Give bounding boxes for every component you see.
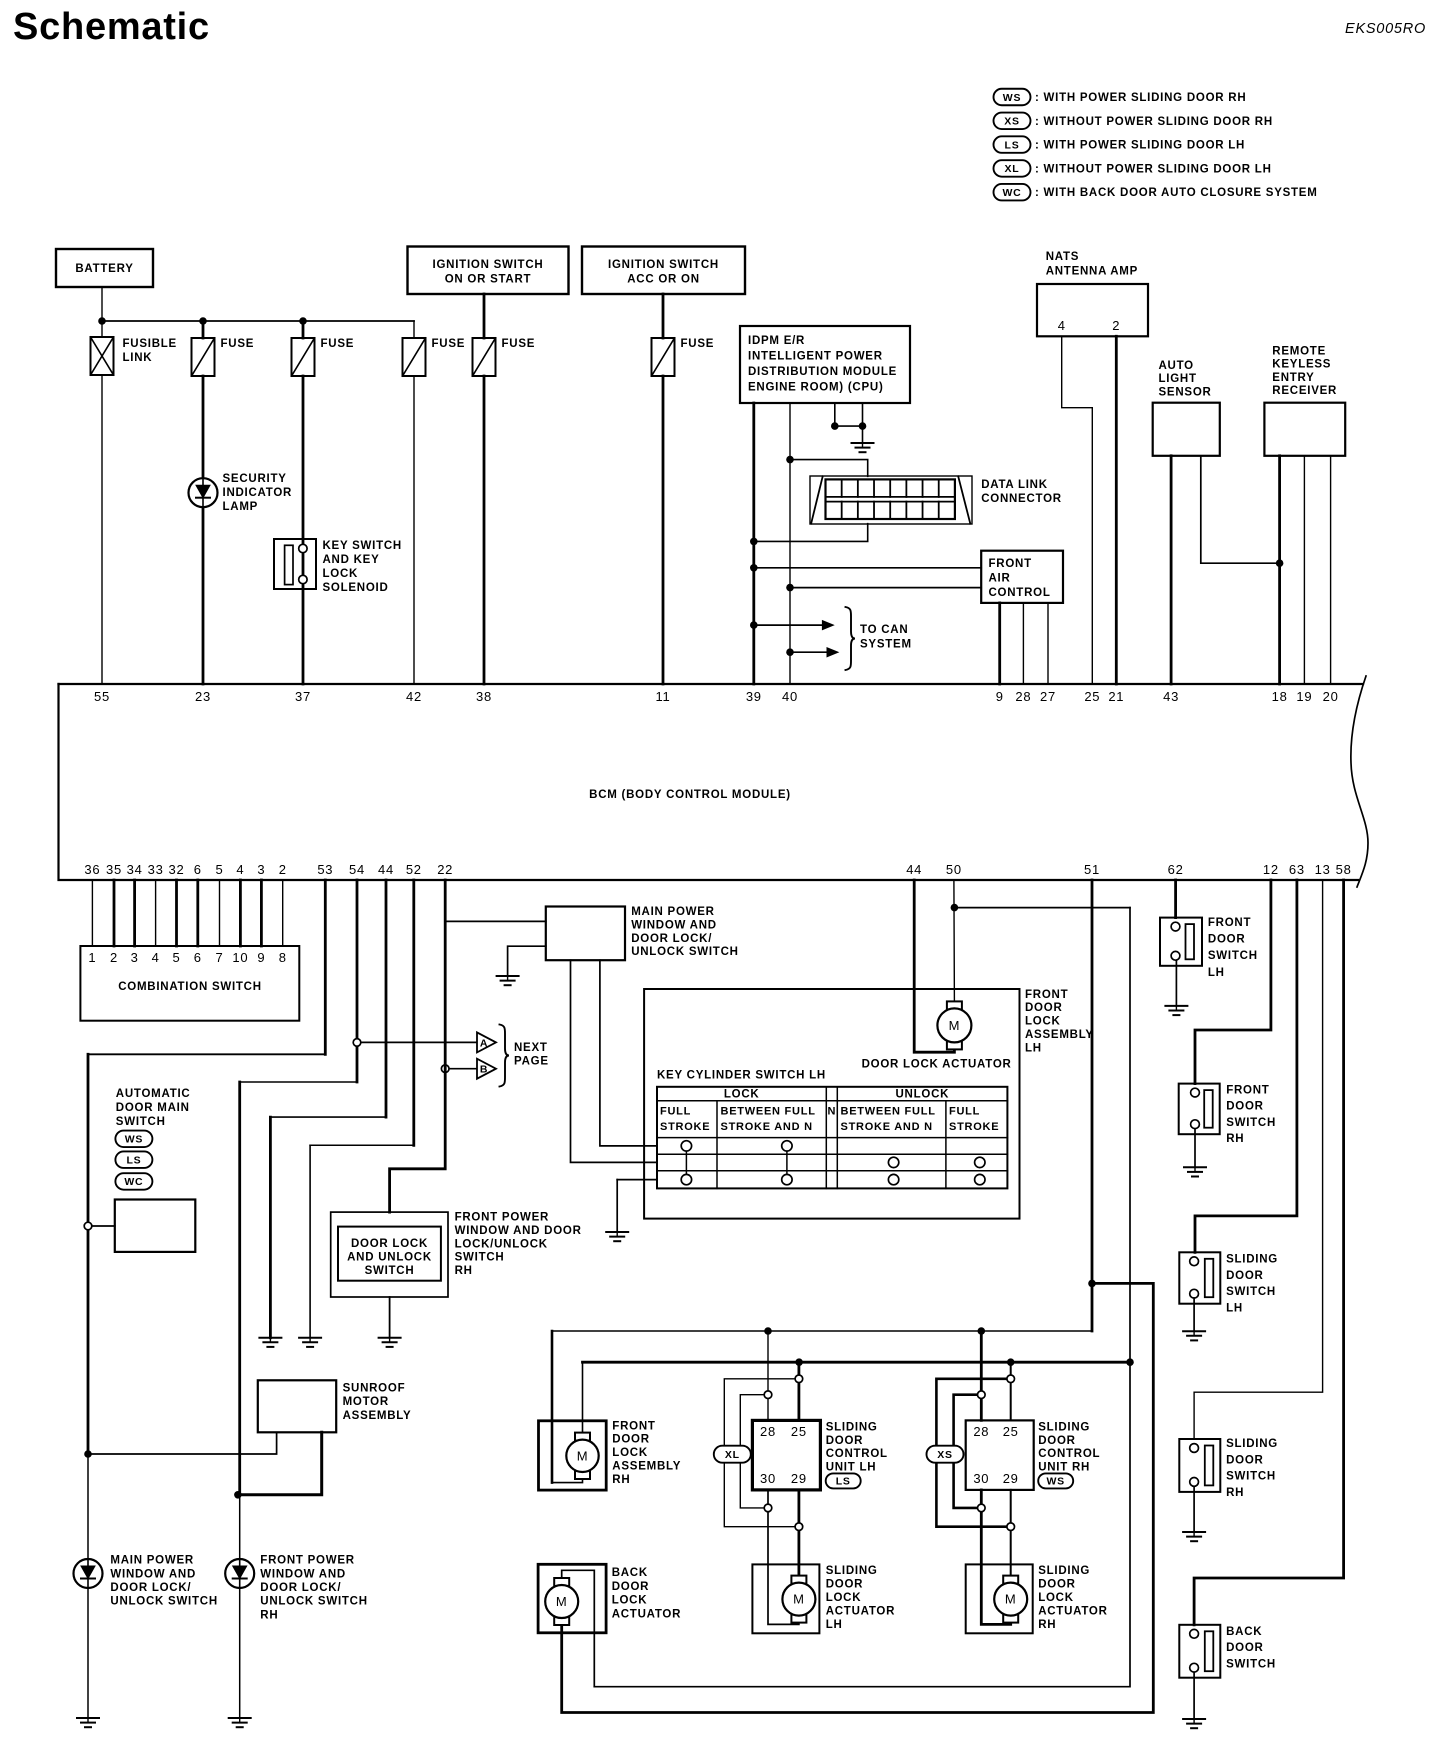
svg-text:SLIDING: SLIDING — [826, 1421, 878, 1433]
svg-text:29: 29 — [1003, 1471, 1019, 1486]
svg-text:KEYLESS: KEYLESS — [1272, 359, 1331, 371]
svg-text:RH: RH — [1226, 1133, 1244, 1145]
svg-text:ENTRY: ENTRY — [1272, 372, 1314, 384]
svg-text:REMOTE: REMOTE — [1272, 346, 1326, 358]
svg-text:FUSE: FUSE — [321, 338, 355, 350]
svg-text:LOCK: LOCK — [724, 1089, 760, 1101]
svg-text:: WITH POWER SLIDING DOOR RH: : WITH POWER SLIDING DOOR RH — [1035, 92, 1246, 104]
svg-text:11: 11 — [656, 689, 671, 704]
svg-text:34: 34 — [127, 862, 143, 877]
svg-text:STROKE: STROKE — [660, 1121, 710, 1133]
svg-text:FUSE: FUSE — [432, 338, 466, 350]
svg-text:53: 53 — [317, 862, 333, 877]
svg-text:ACTUATOR: ACTUATOR — [1038, 1605, 1107, 1617]
svg-text:XL: XL — [1005, 163, 1020, 175]
svg-text:RECEIVER: RECEIVER — [1272, 385, 1337, 397]
svg-text:LS: LS — [836, 1476, 851, 1488]
svg-text:INDICATOR: INDICATOR — [223, 487, 293, 499]
svg-text:FRONT: FRONT — [1025, 989, 1068, 1001]
svg-text:SWITCH: SWITCH — [1226, 1659, 1276, 1671]
svg-text:SYSTEM: SYSTEM — [860, 639, 912, 651]
svg-text:2: 2 — [1112, 318, 1120, 333]
svg-text:STROKE AND N: STROKE AND N — [841, 1121, 933, 1133]
svg-text:WS: WS — [1046, 1476, 1064, 1488]
svg-text:ACTUATOR: ACTUATOR — [826, 1605, 895, 1617]
svg-text:33: 33 — [148, 862, 164, 877]
svg-text:3: 3 — [257, 862, 265, 877]
svg-text:FUSE: FUSE — [681, 338, 715, 350]
svg-text:10: 10 — [232, 950, 248, 965]
svg-text:FRONT: FRONT — [612, 1420, 655, 1432]
svg-text:TO CAN: TO CAN — [860, 624, 908, 636]
svg-text:ENGINE ROOM) (CPU): ENGINE ROOM) (CPU) — [748, 382, 884, 394]
svg-text:FRONT POWER: FRONT POWER — [455, 1212, 549, 1224]
svg-text:AUTOMATIC: AUTOMATIC — [116, 1088, 191, 1100]
svg-text:LOCK: LOCK — [1025, 1016, 1061, 1028]
svg-text:BATTERY: BATTERY — [75, 263, 133, 275]
svg-text:LOCK: LOCK — [323, 568, 359, 580]
svg-text:DOOR: DOOR — [1226, 1101, 1264, 1113]
svg-text:CONTROL: CONTROL — [989, 587, 1051, 599]
svg-text:4: 4 — [152, 950, 160, 965]
svg-text:WS: WS — [125, 1134, 143, 1146]
svg-text:54: 54 — [349, 862, 365, 877]
svg-text:SWITCH: SWITCH — [455, 1252, 505, 1264]
svg-text:M: M — [577, 1448, 589, 1463]
svg-text:62: 62 — [1168, 862, 1184, 877]
svg-text:52: 52 — [406, 862, 422, 877]
svg-text:FUSE: FUSE — [221, 338, 255, 350]
svg-text:M: M — [949, 1018, 961, 1033]
svg-text:FRONT: FRONT — [1226, 1084, 1269, 1096]
svg-text:40: 40 — [782, 689, 798, 704]
svg-text:6: 6 — [194, 950, 202, 965]
svg-text:LAMP: LAMP — [223, 501, 259, 513]
svg-text:36: 36 — [84, 862, 100, 877]
svg-text:23: 23 — [195, 689, 211, 704]
svg-text:4: 4 — [1058, 318, 1066, 333]
svg-text:FUSIBLE: FUSIBLE — [123, 338, 177, 350]
svg-text:LOCK: LOCK — [826, 1592, 862, 1604]
svg-text:DOOR: DOOR — [1025, 1002, 1063, 1014]
svg-text:IGNITION SWITCH: IGNITION SWITCH — [608, 259, 719, 271]
svg-text:SLIDING: SLIDING — [1038, 1421, 1090, 1433]
svg-text:BACK: BACK — [1226, 1626, 1262, 1638]
svg-text:37: 37 — [295, 689, 311, 704]
svg-text:ON OR START: ON OR START — [445, 274, 532, 286]
svg-text:UNIT LH: UNIT LH — [826, 1462, 877, 1474]
svg-text:WC: WC — [124, 1176, 143, 1188]
svg-text:FRONT: FRONT — [989, 558, 1032, 570]
svg-text:50: 50 — [946, 862, 962, 877]
svg-text:LOCK: LOCK — [1038, 1592, 1074, 1604]
svg-text:DOOR LOCK ACTUATOR: DOOR LOCK ACTUATOR — [862, 1059, 1012, 1071]
svg-text:SWITCH: SWITCH — [1208, 950, 1258, 962]
svg-text:SLIDING: SLIDING — [1226, 1254, 1278, 1266]
svg-text:RH: RH — [1038, 1619, 1056, 1631]
svg-text:ACTUATOR: ACTUATOR — [612, 1609, 681, 1621]
svg-text:DOOR: DOOR — [1226, 1454, 1264, 1466]
svg-text:STROKE: STROKE — [949, 1121, 999, 1133]
svg-text:WS: WS — [1003, 92, 1021, 104]
svg-text:9: 9 — [257, 950, 265, 965]
svg-text:39: 39 — [746, 689, 762, 704]
svg-text:STROKE AND N: STROKE AND N — [721, 1121, 813, 1133]
svg-text:LH: LH — [1025, 1042, 1042, 1054]
svg-text:51: 51 — [1084, 862, 1100, 877]
svg-text:NATS: NATS — [1046, 251, 1079, 263]
svg-text:LOCK: LOCK — [612, 1447, 648, 1459]
svg-text:27: 27 — [1040, 689, 1056, 704]
svg-text:28: 28 — [760, 1424, 776, 1439]
svg-text:DOOR: DOOR — [1226, 1270, 1264, 1282]
svg-text:XS: XS — [1004, 116, 1020, 128]
svg-text:: WITHOUT POWER SLIDING DOOR R: : WITHOUT POWER SLIDING DOOR RH — [1035, 116, 1273, 128]
svg-text:55: 55 — [94, 689, 110, 704]
svg-text:RH: RH — [612, 1474, 630, 1486]
svg-text:SOLENOID: SOLENOID — [323, 582, 389, 594]
svg-text:CONNECTOR: CONNECTOR — [981, 493, 1062, 505]
svg-text:FULL: FULL — [660, 1106, 691, 1118]
svg-text:25: 25 — [1084, 689, 1100, 704]
svg-text:22: 22 — [437, 862, 453, 877]
svg-text:UNLOCK SWITCH: UNLOCK SWITCH — [260, 1596, 368, 1608]
svg-text:ASSEMBLY: ASSEMBLY — [343, 1410, 412, 1422]
svg-text:BACK: BACK — [612, 1567, 648, 1579]
svg-text:INTELLIGENT POWER: INTELLIGENT POWER — [748, 351, 883, 363]
svg-text:BETWEEN FULL: BETWEEN FULL — [721, 1106, 816, 1118]
svg-text:7: 7 — [216, 950, 224, 965]
svg-text:M: M — [1005, 1592, 1017, 1607]
svg-text:MAIN POWER: MAIN POWER — [631, 906, 715, 918]
svg-text:DOOR: DOOR — [612, 1581, 650, 1593]
svg-text:SLIDING: SLIDING — [1038, 1565, 1090, 1577]
svg-text:38: 38 — [476, 689, 492, 704]
svg-text:MAIN POWER: MAIN POWER — [110, 1555, 194, 1567]
svg-text:DOOR LOCK/: DOOR LOCK/ — [110, 1582, 191, 1594]
svg-text:1: 1 — [88, 950, 96, 965]
svg-text:DOOR: DOOR — [1226, 1642, 1264, 1654]
svg-text:SECURITY: SECURITY — [223, 473, 287, 485]
svg-text:KEY CYLINDER SWITCH LH: KEY CYLINDER SWITCH LH — [657, 1069, 826, 1081]
svg-text:LS: LS — [1005, 139, 1020, 151]
svg-text:29: 29 — [791, 1471, 807, 1486]
svg-text:18: 18 — [1272, 689, 1288, 704]
svg-text:2: 2 — [110, 950, 118, 965]
svg-text:UNLOCK SWITCH: UNLOCK SWITCH — [110, 1596, 217, 1608]
svg-text:PAGE: PAGE — [514, 1056, 549, 1068]
svg-text:AUTO: AUTO — [1159, 360, 1194, 372]
svg-text:3: 3 — [131, 950, 139, 965]
svg-text:WINDOW AND: WINDOW AND — [110, 1568, 196, 1580]
svg-text:RH: RH — [1226, 1487, 1244, 1499]
svg-text:SLIDING: SLIDING — [826, 1565, 878, 1577]
svg-text:21: 21 — [1108, 689, 1124, 704]
svg-text:DOOR: DOOR — [1038, 1435, 1076, 1447]
svg-text:2: 2 — [279, 862, 287, 877]
svg-text:6: 6 — [194, 862, 202, 877]
svg-text:XL: XL — [725, 1449, 740, 1461]
svg-text:28: 28 — [1015, 689, 1031, 704]
svg-text:LH: LH — [1226, 1303, 1243, 1315]
svg-text:32: 32 — [169, 862, 185, 877]
svg-text:ASSEMBLY: ASSEMBLY — [612, 1461, 681, 1473]
svg-text:ANTENNA AMP: ANTENNA AMP — [1046, 266, 1138, 278]
svg-text:UNLOCK SWITCH: UNLOCK SWITCH — [631, 946, 739, 958]
svg-text:KEY SWITCH: KEY SWITCH — [323, 540, 403, 552]
svg-text:12: 12 — [1263, 862, 1279, 877]
svg-text:IGNITION SWITCH: IGNITION SWITCH — [433, 259, 544, 271]
svg-text:LOCK/UNLOCK: LOCK/UNLOCK — [455, 1238, 548, 1250]
svg-text:ASSEMBLY: ASSEMBLY — [1025, 1029, 1094, 1041]
svg-text:42: 42 — [406, 689, 422, 704]
svg-text:: WITH POWER SLIDING DOOR LH: : WITH POWER SLIDING DOOR LH — [1035, 140, 1245, 152]
svg-text:: WITH BACK DOOR AUTO CLOSURE: : WITH BACK DOOR AUTO CLOSURE SYSTEM — [1035, 187, 1318, 199]
svg-text:9: 9 — [996, 689, 1004, 704]
svg-text:WINDOW AND: WINDOW AND — [631, 919, 717, 931]
svg-text:30: 30 — [973, 1471, 989, 1486]
svg-text:SWITCH: SWITCH — [365, 1265, 415, 1277]
svg-text:RH: RH — [455, 1265, 473, 1277]
svg-text:DOOR LOCK: DOOR LOCK — [351, 1238, 428, 1250]
svg-text:WINDOW AND: WINDOW AND — [260, 1568, 346, 1580]
svg-text:58: 58 — [1336, 862, 1352, 877]
svg-text:UNLOCK: UNLOCK — [895, 1089, 949, 1101]
svg-text:4: 4 — [236, 862, 244, 877]
svg-text:DOOR LOCK/: DOOR LOCK/ — [631, 933, 712, 945]
svg-text:LINK: LINK — [123, 352, 153, 364]
svg-text:63: 63 — [1289, 862, 1305, 877]
svg-text:UNIT RH: UNIT RH — [1038, 1462, 1090, 1474]
svg-text:AND KEY: AND KEY — [323, 554, 380, 566]
svg-text:: WITHOUT POWER SLIDING DOOR L: : WITHOUT POWER SLIDING DOOR LH — [1035, 163, 1272, 175]
svg-text:DISTRIBUTION MODULE: DISTRIBUTION MODULE — [748, 366, 897, 378]
svg-text:BETWEEN FULL: BETWEEN FULL — [841, 1106, 936, 1118]
svg-text:AIR: AIR — [989, 573, 1011, 585]
svg-text:CONTROL: CONTROL — [1038, 1448, 1100, 1460]
svg-text:25: 25 — [1003, 1424, 1019, 1439]
svg-text:DOOR LOCK/: DOOR LOCK/ — [260, 1582, 341, 1594]
svg-text:LH: LH — [1208, 967, 1225, 979]
svg-text:20: 20 — [1323, 689, 1339, 704]
svg-text:IDPM E/R: IDPM E/R — [748, 335, 805, 347]
svg-text:DATA LINK: DATA LINK — [981, 479, 1048, 491]
svg-text:DOOR: DOOR — [1038, 1579, 1076, 1591]
svg-text:8: 8 — [279, 950, 287, 965]
svg-text:M: M — [793, 1592, 805, 1607]
svg-text:5: 5 — [173, 950, 181, 965]
svg-text:44: 44 — [906, 862, 922, 877]
svg-text:LIGHT: LIGHT — [1159, 373, 1197, 385]
svg-text:SUNROOF: SUNROOF — [343, 1383, 406, 1395]
svg-text:LOCK: LOCK — [612, 1595, 648, 1607]
svg-text:ACC OR ON: ACC OR ON — [627, 274, 700, 286]
svg-text:SWITCH: SWITCH — [116, 1116, 166, 1128]
svg-text:44: 44 — [378, 862, 394, 877]
svg-text:SWITCH: SWITCH — [1226, 1471, 1276, 1483]
svg-text:28: 28 — [973, 1424, 989, 1439]
svg-text:A: A — [480, 1037, 488, 1049]
svg-text:FRONT: FRONT — [1208, 917, 1251, 929]
svg-text:LH: LH — [826, 1619, 843, 1631]
svg-text:WINDOW AND DOOR: WINDOW AND DOOR — [455, 1225, 582, 1237]
svg-text:SLIDING: SLIDING — [1226, 1438, 1278, 1450]
svg-text:DOOR: DOOR — [826, 1435, 864, 1447]
svg-text:30: 30 — [760, 1471, 776, 1486]
svg-text:M: M — [556, 1594, 568, 1609]
svg-text:DOOR: DOOR — [612, 1434, 650, 1446]
svg-text:B: B — [480, 1064, 488, 1076]
svg-text:43: 43 — [1163, 689, 1179, 704]
svg-text:NEXT: NEXT — [514, 1042, 548, 1054]
svg-text:XS: XS — [937, 1449, 953, 1461]
svg-text:DOOR: DOOR — [1208, 934, 1246, 946]
svg-text:13: 13 — [1315, 862, 1331, 877]
svg-text:FUSE: FUSE — [502, 338, 536, 350]
svg-text:N: N — [827, 1106, 836, 1118]
svg-text:DOOR: DOOR — [826, 1579, 864, 1591]
svg-text:25: 25 — [791, 1424, 807, 1439]
svg-text:AND UNLOCK: AND UNLOCK — [347, 1251, 432, 1263]
svg-text:BCM (BODY CONTROL MODULE): BCM (BODY CONTROL MODULE) — [589, 789, 791, 801]
svg-text:LS: LS — [126, 1155, 141, 1167]
svg-text:FRONT POWER: FRONT POWER — [260, 1555, 355, 1567]
svg-text:WC: WC — [1003, 187, 1022, 199]
svg-text:SENSOR: SENSOR — [1159, 386, 1212, 398]
svg-text:COMBINATION SWITCH: COMBINATION SWITCH — [118, 981, 262, 993]
svg-text:19: 19 — [1296, 689, 1312, 704]
svg-text:5: 5 — [216, 862, 224, 877]
svg-text:SWITCH: SWITCH — [1226, 1117, 1276, 1129]
svg-text:MOTOR: MOTOR — [343, 1396, 389, 1408]
svg-text:DOOR MAIN: DOOR MAIN — [116, 1102, 190, 1114]
svg-text:RH: RH — [260, 1609, 278, 1621]
svg-text:CONTROL: CONTROL — [826, 1448, 888, 1460]
svg-text:35: 35 — [106, 862, 122, 877]
svg-text:SWITCH: SWITCH — [1226, 1286, 1276, 1298]
svg-text:EKS005RO: EKS005RO — [1345, 21, 1426, 37]
svg-text:Schematic: Schematic — [13, 6, 210, 48]
svg-text:FULL: FULL — [949, 1106, 980, 1118]
